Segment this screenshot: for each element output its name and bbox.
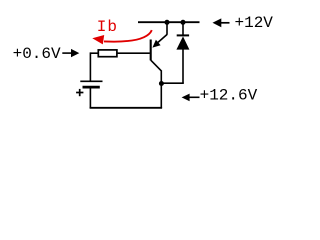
wire: vertical down to battery bbox=[89, 52, 91, 80]
node junction dot (diode to rail) bbox=[180, 20, 185, 25]
wire: base wire to resistor bbox=[117, 52, 150, 54]
wire: left wire from corner to resistor bbox=[90, 52, 98, 54]
transistor Q1 base bar bbox=[150, 40, 152, 61]
diode D1 (cathode bar up, conducts upward) bbox=[176, 35, 189, 49]
resistor R1 (base resistor) bbox=[98, 50, 117, 57]
svg-text:+0.6V: +0.6V bbox=[13, 45, 61, 63]
transistor Q1 collector lead bbox=[151, 60, 162, 108]
wire: +12V top rail bbox=[138, 21, 200, 23]
label arrow for +12.6V (points left at output node) bbox=[182, 94, 200, 102]
node junction dot (collector / diode / output node) bbox=[159, 81, 164, 86]
svg-text:Ib: Ib bbox=[97, 18, 118, 36]
wire: diode bottom lead down bbox=[182, 49, 184, 83]
label arrow for +0.6V (points right at node) bbox=[62, 49, 79, 57]
red current arrow for Ib bbox=[92, 30, 152, 44]
label arrow for +12V (points left at rail) bbox=[213, 18, 230, 27]
wire: diode top lead bbox=[182, 22, 184, 35]
transistor Q1 emitter lead with PNP arrow into base bbox=[152, 22, 167, 48]
wire: bottom rail bbox=[90, 107, 163, 109]
wire: horizontal connector diode to collector node bbox=[161, 82, 184, 84]
node junction dot (emitter to rail) bbox=[164, 20, 169, 25]
svg-text:+12.6V: +12.6V bbox=[200, 86, 258, 104]
battery B1 (12V cell, + at bottom) bbox=[76, 81, 102, 96]
wire: battery to bottom rail bbox=[89, 88, 91, 108]
svg-text:+12V: +12V bbox=[235, 14, 274, 32]
